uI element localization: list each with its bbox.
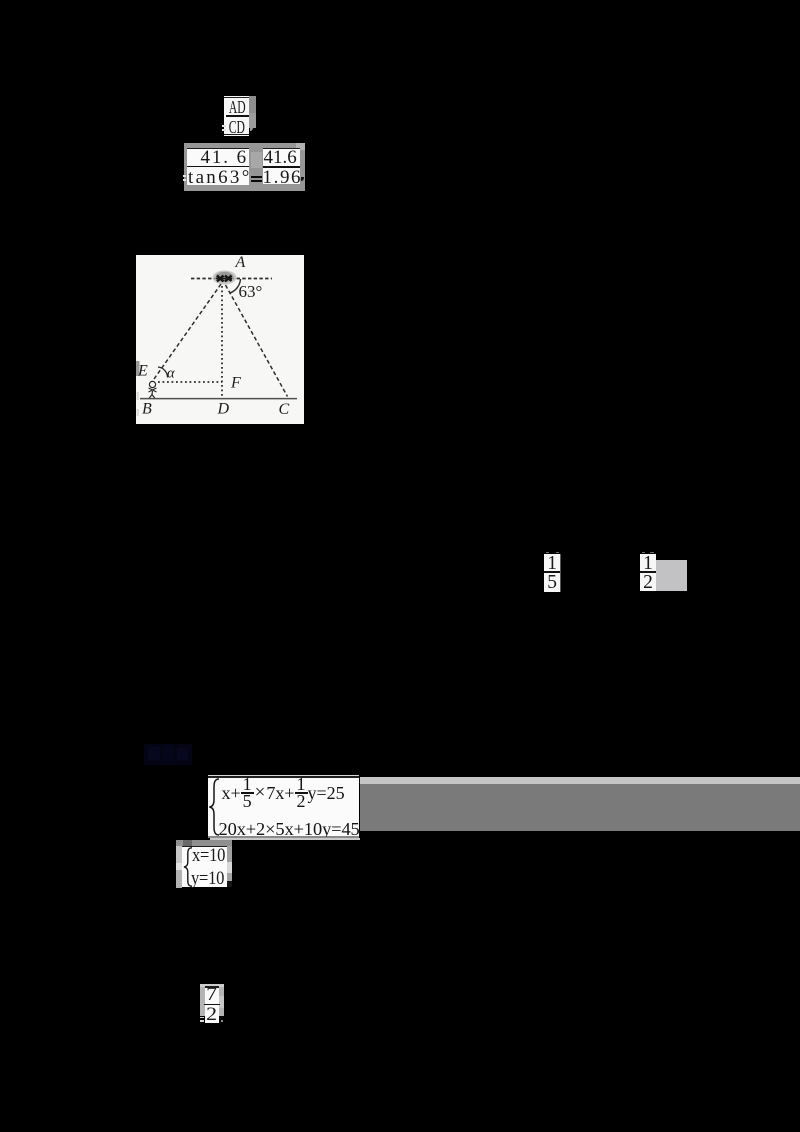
svg-text:F: F <box>230 375 241 392</box>
gray dot right of 7/2 <box>221 1020 223 1022</box>
63 degree angle arc <box>231 279 241 293</box>
svg-text:D: D <box>217 401 230 418</box>
light gray tabs bottom-left edge <box>137 392 140 400</box>
dashed line A to C <box>226 285 288 397</box>
white equals fragment left of 7/2 <box>200 1017 204 1019</box>
big left curly brace <box>209 778 220 836</box>
gray band right of equation system : light strip <box>360 777 800 784</box>
dashed line A to E <box>154 284 221 379</box>
x=10 y=10 white box <box>182 846 227 887</box>
gray highlight rect right of 1/2 <box>656 560 688 591</box>
person stick figure at B <box>149 381 155 387</box>
dashed horizontal line through drone <box>191 278 272 280</box>
dotted horizontal line E to F <box>158 381 222 383</box>
y=10 <box>191 873 229 885</box>
comma after 1.96 <box>301 177 304 182</box>
white box 41.6 / tan63 <box>187 148 249 185</box>
svg-text:C: C <box>279 401 290 418</box>
dark navy highlighted text block <box>144 744 192 765</box>
geometry figure image <box>136 255 304 424</box>
small left curly brace <box>183 847 193 887</box>
white equals fragment at left edge <box>183 175 186 177</box>
white box 41.6 / 1.96 <box>263 149 300 184</box>
svg-text:E: E <box>137 363 148 380</box>
gray tab near E <box>136 361 140 376</box>
svg-text:B: B <box>142 401 152 418</box>
ground line <box>140 398 297 400</box>
equation line 2: 20x+2*5x+10y=450 <box>219 822 360 837</box>
fraction 7/2 : gray backdrop <box>200 984 224 1016</box>
svg-text:63°: 63° <box>239 282 263 301</box>
equation image 41.6/tan63 = 41.6/1.96 : gray background <box>184 143 305 191</box>
gray band dark part <box>360 784 800 832</box>
white equals fragment left of CD <box>222 125 226 127</box>
equation line 1: x+1/5*7x+1/2y=25 <box>222 777 345 809</box>
fraction 7/2 white box <box>205 986 219 1023</box>
svg-text:α: α <box>167 366 175 382</box>
x=10 y=10 system : surrounding grays <box>176 840 232 846</box>
gray column right of AD/CD <box>249 96 257 113</box>
equals sign between boxes <box>251 176 262 178</box>
fraction 1/2 <box>642 552 645 553</box>
dotted vertical line A to D <box>221 286 223 397</box>
equation system white box <box>208 775 359 776</box>
fraction 1/5 <box>546 552 549 553</box>
fraction AD/CD <box>224 96 249 136</box>
drone blob at A <box>213 271 237 285</box>
figure white background <box>136 255 304 424</box>
comma after AD/CD <box>250 127 253 132</box>
alpha angle arc at E <box>158 367 168 378</box>
x=10 <box>192 850 230 862</box>
dark period after system <box>227 881 232 887</box>
svg-text:A: A <box>235 255 246 271</box>
